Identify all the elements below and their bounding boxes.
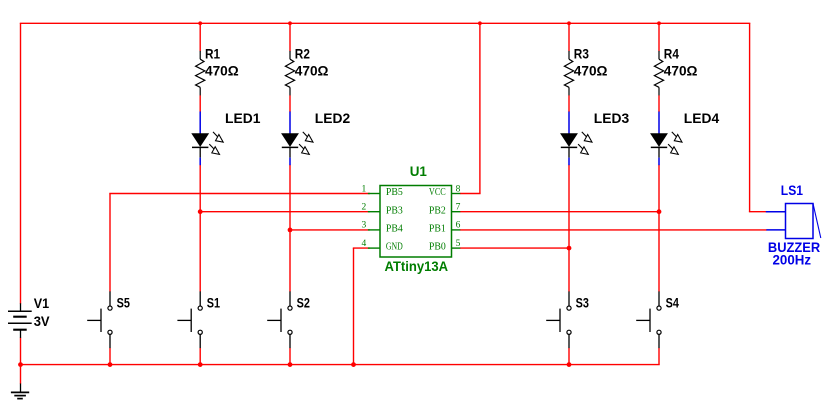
svg-text:PB2: PB2 [429,205,446,216]
svg-text:470Ω: 470Ω [295,63,329,79]
svg-text:PB4: PB4 [386,224,403,235]
buzzer LS1 200Hz [766,182,821,268]
wire top rail to R1 [199,23,201,51]
junction on top rail x=659 [657,21,661,25]
junction PB0/LED3 node [567,246,572,251]
wire battery negative to bottom rail [20,338,22,365]
junction on top rail x=479 [478,21,482,25]
switch S4 [636,291,679,348]
svg-text:200Hz: 200Hz [773,252,812,268]
wire pin3 PB4 to LED2/S2 node [290,229,370,231]
wire R1 to LED1 [199,95,201,112]
svg-text:S1: S1 [207,294,220,310]
LED LED1 [192,110,261,165]
svg-text:LED4: LED4 [684,110,720,126]
wire LED3 to S3 [568,165,570,292]
wire R2 to LED2 [289,95,291,112]
pin 5 PB0 [452,247,461,249]
wire LED1 to S1 [199,165,201,292]
wire S5 to bottom rail [109,348,111,365]
svg-text:7: 7 [456,203,461,213]
wire pin5 PB0 to LED3/S3 node [460,247,569,249]
wire top rail to R4 [658,23,660,51]
svg-text:PB1: PB1 [429,224,446,235]
svg-text:VCC: VCC [429,187,446,198]
junction PB2/LED4 node [657,209,662,214]
junction on top rail x=290 [288,21,292,25]
wire buzzer top feed (horizontal) [749,211,766,213]
wire pin8 VCC riser to top rail [479,23,481,193]
junction on bottom rail x=569 [567,362,572,367]
svg-text:PB3: PB3 [386,205,403,216]
resistor R2 470ohm [285,46,328,96]
svg-text:R3: R3 [574,46,589,62]
pin 2 PB3 [368,211,380,213]
junction PB4/LED2 node [288,228,293,233]
switch S2 [267,291,310,348]
junction on bottom rail x=290 [288,362,293,367]
wire top rail to R2 [289,23,291,51]
svg-text:LED2: LED2 [315,110,351,126]
battery V1 3V [8,295,50,338]
wire LED4 to S4 [658,165,660,292]
wire pin7 PB2 to LED4/S4 node [460,211,659,213]
wire bottom ground rail [20,364,660,366]
switch S1 [177,291,220,348]
switch S3 [546,291,589,348]
svg-text:470Ω: 470Ω [205,63,239,79]
junction on bottom rail x=200 [198,362,203,367]
resistor R3 470ohm [564,46,607,96]
wire top power rail [20,22,751,24]
svg-text:V1: V1 [34,295,50,311]
svg-text:LED3: LED3 [594,110,630,126]
svg-text:PB0: PB0 [429,242,446,253]
junction on bottom rail x=110 [108,362,113,367]
pin 7 PB2 [452,211,461,213]
wire LED2 to S2 [289,165,291,292]
svg-text:LS1: LS1 [781,182,803,198]
wire R3 to LED3 [568,95,570,112]
wire top rail to R3 [568,23,570,51]
wire pin1 PB5 to S5 (vertical drop) [109,194,111,292]
svg-text:S2: S2 [297,294,310,310]
junction PB3/LED1 node [198,209,203,214]
svg-text:1: 1 [362,184,367,194]
svg-text:3V: 3V [34,313,51,329]
svg-text:R2: R2 [295,46,310,62]
svg-text:ATtiny13A: ATtiny13A [385,258,449,274]
pin 1 PB5 [368,193,380,195]
op-amp/microcontroller U1 ATtiny13A [362,163,461,274]
junction on top rail x=569 [567,21,571,25]
pin 8 VCC [452,193,461,195]
svg-text:5: 5 [456,239,461,249]
resistor R4 470ohm [654,46,697,96]
svg-text:2: 2 [362,203,367,213]
switch S5 [87,291,130,348]
svg-text:470Ω: 470Ω [664,63,698,79]
wire S2 to bottom rail [289,348,291,365]
svg-text:S4: S4 [666,294,679,310]
wire pin4 GND horizontal [353,247,370,249]
svg-text:3: 3 [362,221,367,231]
wire pin1 PB5 to S5 (horizontal) [109,193,370,195]
junction on bottom rail x=353 [351,362,356,367]
svg-text:PB5: PB5 [386,187,403,198]
wire pin8 VCC horizontal [460,193,481,195]
wire S1 to bottom rail [199,348,201,365]
junction on bottom rail x=20 [18,362,23,367]
svg-text:R4: R4 [664,46,679,62]
wire S3 to bottom rail [568,348,570,365]
pin 4 GND [368,247,380,249]
wire top rail to buzzer (vertical riser) [749,23,751,211]
junction on top rail x=200 [198,21,202,25]
wire left rail from top rail to battery [20,23,22,304]
svg-text:470Ω: 470Ω [574,63,608,79]
LED LED3 [561,110,630,165]
svg-text:6: 6 [456,221,461,231]
svg-text:R1: R1 [205,46,220,62]
svg-text:4: 4 [362,239,367,249]
svg-text:S3: S3 [576,294,589,310]
pin 3 PB4 [368,229,380,231]
resistor R1 470ohm [196,46,239,96]
wire pin2 PB3 to LED1/S1 node [200,211,370,213]
ground symbol [11,384,29,399]
svg-text:S5: S5 [117,294,130,310]
svg-text:8: 8 [456,184,461,194]
pin 6 PB1 [452,229,461,231]
svg-text:GND: GND [386,242,403,253]
LED LED4 [651,110,720,165]
wire S4 to bottom rail [658,348,660,365]
svg-text:LED1: LED1 [225,110,261,126]
wire R4 to LED4 [658,95,660,112]
wire pin6 PB1 to buzzer [460,229,767,231]
wire pin4 GND drop to bottom rail [353,248,355,365]
wire ground stem [20,365,22,384]
svg-text:U1: U1 [410,163,427,179]
LED LED2 [282,110,351,165]
